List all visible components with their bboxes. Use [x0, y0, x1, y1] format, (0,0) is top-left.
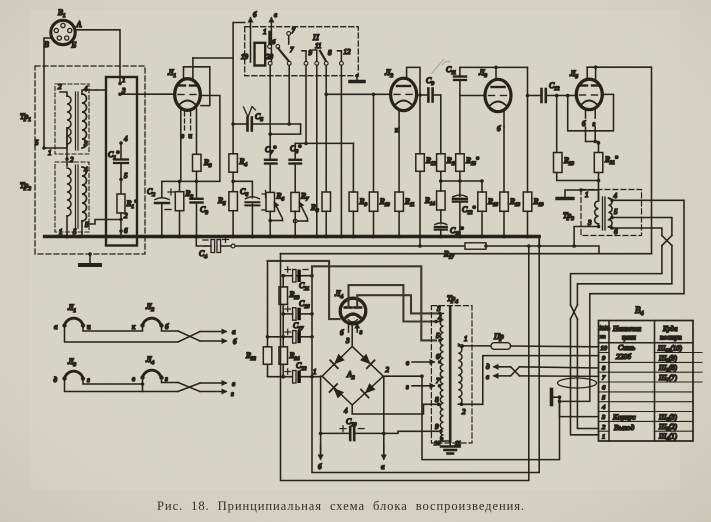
R24 bottom lead — [282, 364, 284, 376]
node line2 wC — [527, 244, 531, 248]
bridge diode BL — [330, 384, 345, 399]
C7 leads — [269, 156, 271, 160]
node C17 ll — [266, 335, 270, 339]
L4 anode bars — [345, 306, 361, 309]
wire junction to C6 — [233, 181, 252, 197]
C4 wires / line2 — [205, 245, 211, 247]
R7 bottom circle — [293, 219, 297, 223]
R4 leads — [232, 124, 234, 154]
node line2 Tr3pin3 — [572, 244, 576, 248]
svg-text:3: 3 — [83, 140, 88, 148]
wire from pin V down the left side — [44, 38, 51, 148]
tap9 — [439, 430, 443, 434]
anode junction vertical to switch area — [233, 23, 245, 125]
open circle node on line2 — [231, 244, 235, 248]
left rail top corner — [267, 261, 269, 337]
bridge corner2 wire right — [383, 375, 422, 377]
arrow up v — [250, 18, 252, 62]
plus C20 — [340, 426, 346, 432]
resistor R10 — [369, 192, 378, 211]
tap6 wire to X1 — [612, 228, 662, 236]
svg-text:1: 1 — [263, 28, 267, 36]
resistor R3 — [193, 154, 202, 171]
node 5 (shield) — [119, 178, 123, 182]
svg-text:цепи: цепи — [622, 334, 636, 342]
svg-text:2: 2 — [70, 156, 74, 164]
capacitor C4 electrolytic horizontal — [211, 240, 221, 253]
node 2 junction mid — [65, 157, 69, 161]
crossover X4 — [178, 331, 200, 341]
svg-text:б: б — [318, 463, 322, 471]
resistor R1 — [117, 194, 125, 213]
plus C22 — [285, 369, 291, 374]
C11 top lead — [459, 67, 461, 76]
svg-text:19: 19 — [241, 53, 249, 61]
wire contact12 down to bus — [340, 65, 342, 236]
svg-text:1: 1 — [602, 434, 605, 441]
cathode joining line — [586, 127, 599, 153]
arrow a down — [383, 445, 385, 459]
node C16 l — [281, 312, 285, 316]
minus sign C6 — [262, 209, 269, 211]
wire Tr1 sec top to shield pin3 — [82, 90, 96, 94]
svg-text:и: и — [87, 323, 91, 331]
svg-text:г: г — [406, 383, 409, 391]
node 2 (shield) — [119, 218, 123, 222]
L5 anode leads — [586, 67, 588, 79]
Tr3 dashed box — [581, 190, 642, 236]
resistor R7 — [291, 192, 300, 211]
node 6 (shield) — [119, 229, 123, 233]
node C21 right — [310, 274, 314, 278]
SECTION: buses — [45, 235, 652, 261]
resistor R21 — [594, 153, 603, 173]
thick wire t1 heater — [268, 261, 340, 319]
head L3 arc — [65, 371, 84, 378]
tube L2 envelope — [391, 78, 417, 110]
L2 grid dashes — [394, 93, 412, 95]
L1 cathode arc — [180, 101, 195, 105]
C13 bottom lead — [440, 230, 442, 237]
L3 grid dashes — [489, 95, 507, 97]
R18 leads — [503, 127, 505, 192]
svg-text:г: г — [231, 390, 234, 398]
cable loop oval — [558, 378, 597, 388]
Tr2 core — [75, 165, 77, 228]
resistor R23 — [279, 287, 288, 305]
crossover X5 — [178, 383, 200, 392]
svg-text:2: 2 — [462, 408, 466, 416]
node C20 left — [319, 432, 323, 436]
outputs v g — [200, 382, 226, 384]
R3 bottom lead — [196, 171, 198, 181]
chassis stub right of box — [355, 74, 359, 78]
head L1 terminal dots — [62, 323, 66, 327]
tube L4 envelope — [340, 298, 366, 324]
X1 out b — [577, 246, 672, 306]
node contact8 grid tee — [324, 93, 328, 97]
SECTION: tube L5 output — [528, 65, 652, 253]
tube L1 envelope — [175, 79, 201, 111]
R6 bottom lead — [269, 211, 271, 236]
svg-text:7: 7 — [436, 377, 440, 385]
Tr3 primary winding — [595, 201, 599, 224]
L2 cathode arc — [396, 101, 411, 105]
head L2 arc — [143, 318, 162, 325]
capacitor C3 — [191, 199, 203, 203]
tap5 — [438, 339, 442, 343]
capacitor C16 — [293, 308, 296, 321]
node R6 bottom — [268, 219, 272, 223]
svg-text:1: 1 — [313, 368, 317, 376]
wire head L2 right to crossover — [162, 326, 179, 332]
table column line 1 — [608, 321, 610, 442]
svg-text:12: 12 — [344, 48, 352, 56]
R11 leads — [398, 127, 400, 192]
wire to row7 — [520, 375, 599, 378]
node R2 junction — [178, 180, 182, 184]
svg-text:3: 3 — [436, 305, 441, 313]
svg-text:Выход: Выход — [614, 423, 634, 432]
thick wire t4 anode2 — [357, 295, 438, 313]
Tr1 secondary winding — [82, 94, 87, 148]
SECTION: power supply — [245, 246, 560, 481]
outputs a b — [200, 331, 226, 333]
head L1 arc — [65, 318, 84, 325]
h-link 143 — [295, 142, 353, 144]
table V4 outer frame — [599, 321, 694, 442]
svg-text:Б: Б — [71, 41, 77, 50]
minus C20 — [359, 428, 365, 430]
tap4 lead — [609, 198, 613, 200]
resistor R24 — [279, 347, 288, 365]
X3 out to row1 — [571, 319, 599, 435]
node C17 l — [281, 335, 285, 339]
L5 top rail to right corner — [587, 67, 651, 254]
R2 leads — [179, 181, 181, 191]
node link 181 a — [439, 179, 443, 183]
svg-text:и: и — [189, 132, 193, 140]
L5 cathode arc — [582, 101, 597, 105]
Tr1 primary winding — [67, 96, 71, 144]
capacitor C8 — [290, 160, 302, 164]
wire head L1 right to L2 left — [83, 326, 143, 332]
resistor R9 — [349, 192, 358, 211]
L2 anode lead — [407, 67, 420, 95]
resistor R2 — [175, 192, 184, 211]
node link 181 b — [458, 179, 462, 183]
bridge corner4 to tap8 — [352, 404, 436, 414]
R5 bottom lead — [232, 211, 234, 237]
wire C5 line left — [233, 123, 246, 125]
L4 cathode to bridge top — [351, 325, 353, 346]
capacitor C5 — [248, 118, 252, 131]
svg-text:е: е — [274, 11, 277, 19]
bus end drop to line2 — [538, 237, 540, 246]
screen loop — [568, 94, 614, 130]
tap4 node — [610, 199, 614, 203]
plus sign C2 — [168, 189, 174, 195]
plus C16 — [285, 306, 291, 311]
C2 leads — [161, 181, 163, 197]
earth ground Tr4 — [441, 447, 460, 454]
arrow up e — [270, 18, 272, 62]
svg-text:г: г — [360, 328, 363, 336]
resistor R18 — [500, 192, 509, 211]
wire head L3 right to L4 left — [83, 378, 143, 385]
tap6 — [438, 360, 442, 364]
node pole1 join — [268, 132, 272, 136]
Tr4 dashed box — [431, 306, 472, 443]
chassis wire — [565, 190, 581, 197]
C21 line — [283, 275, 312, 277]
L1 grid dashes — [178, 94, 196, 96]
C3 leads — [196, 181, 198, 198]
R21 bottom lead — [598, 173, 600, 201]
wire C12 to grid L5 — [546, 95, 577, 97]
node 5 bottom — [78, 235, 82, 239]
resistor R19 — [523, 192, 532, 211]
resistor R4 — [229, 154, 238, 172]
center rail R23 — [282, 276, 284, 287]
thick wire t2 — [312, 266, 436, 340]
resistor R5 — [229, 192, 238, 211]
svg-text:1: 1 — [464, 335, 468, 343]
C20 line — [321, 432, 349, 434]
wire contact8 down to R8 — [325, 65, 327, 192]
link line 181 — [441, 180, 482, 182]
node 1 (shield) — [118, 82, 122, 86]
minus sign C2 — [165, 209, 171, 211]
svg-text:6: 6 — [124, 227, 128, 235]
svg-text:пп: пп — [600, 334, 606, 340]
contact 1 circle — [268, 45, 272, 49]
wire head L3 left bottom run — [65, 379, 179, 392]
svg-text:9: 9 — [309, 49, 313, 57]
tap10 lead to core/ground — [442, 439, 450, 442]
row lines — [599, 353, 694, 432]
L3 anode lead — [495, 67, 497, 79]
svg-text:4: 4 — [84, 85, 88, 93]
L2 anode bar — [397, 85, 410, 87]
node wA end — [558, 395, 562, 399]
svg-text:4: 4 — [344, 407, 348, 415]
svg-text:8: 8 — [328, 49, 332, 57]
pole1 bottom contacts — [268, 62, 272, 66]
SECTION: RC ladder — [265, 80, 544, 248]
wire link h134 — [270, 124, 300, 134]
resistor R12 — [416, 154, 425, 172]
capacitor C2 electrolytic — [155, 198, 169, 200]
node R12 top — [418, 93, 422, 97]
node 3 (shield) — [118, 92, 122, 96]
chassis ground bar — [350, 80, 364, 84]
sec tap1 — [460, 344, 464, 348]
anode loop wire — [184, 67, 210, 106]
svg-text:1: 1 — [122, 76, 126, 84]
cathode lead down to R3 — [196, 109, 198, 154]
L3 anode bar — [492, 86, 505, 88]
contact 12 — [338, 51, 342, 62]
R12 leads — [419, 95, 421, 154]
svg-text:б: б — [253, 11, 257, 19]
R15 leads — [459, 80, 461, 154]
R10 leads — [373, 94, 375, 192]
SECTION: input connector — [44, 8, 120, 148]
adjust arrow V над C5 — [244, 107, 256, 118]
crossover X2 — [511, 367, 520, 376]
grid2 lead down to R2 — [180, 110, 182, 181]
tap6 node — [610, 226, 614, 230]
C22 to bridge corner1 — [301, 376, 320, 378]
svg-text:Куда: Куда — [662, 325, 678, 333]
Tr2 primary winding — [67, 168, 71, 216]
head L4 arc — [143, 370, 162, 377]
resistor R17 horizontal — [465, 243, 486, 249]
heater dashed leads — [185, 112, 191, 131]
node C22 a — [281, 375, 285, 379]
connector V1 pins — [54, 23, 72, 40]
node C17 r — [310, 335, 314, 339]
tap3 — [438, 312, 442, 316]
capacitor C13 electrolytic small — [435, 223, 447, 225]
wire wA plus out — [422, 376, 560, 459]
tap5 lead — [609, 218, 613, 220]
right stubs rows 10-7 — [693, 353, 702, 383]
svg-text:6: 6 — [436, 353, 440, 361]
Tr1 core — [75, 92, 77, 150]
contact 1 bar — [268, 32, 271, 44]
tap5 wire to X1 — [612, 218, 672, 236]
contact 11 — [313, 50, 317, 61]
L3 cathode lead — [503, 112, 505, 128]
anode link to C5 junction — [193, 57, 233, 59]
capacitor C12 electrolytic — [453, 195, 467, 197]
wire e in — [494, 375, 511, 377]
L4 smile arc — [348, 320, 357, 322]
svg-text:5: 5 — [124, 172, 128, 180]
crossover X3 — [571, 305, 578, 319]
inner dashed screen box upper — [55, 84, 89, 154]
L3 cathode arc — [491, 102, 506, 106]
wire Tr2 sec bottom lead — [81, 221, 83, 237]
wire Tr1 top pin2 — [60, 92, 67, 96]
resistor R6 — [266, 192, 275, 211]
L4 bottom leads — [348, 323, 350, 332]
svg-text:а: а — [381, 463, 385, 471]
node C5 line switch tee — [287, 122, 291, 126]
fuse Pr — [491, 343, 511, 350]
plus C17 — [285, 329, 291, 334]
node R12 bottom on line2 — [418, 244, 422, 248]
node 4 (shield) — [119, 141, 123, 145]
svg-text:А: А — [76, 20, 82, 29]
wire from pin A to shield box pin 1 — [75, 30, 121, 84]
R7 wiper hook — [300, 203, 308, 222]
pole1 moving circle — [276, 45, 280, 49]
R13 leads — [440, 95, 442, 154]
wire contact11 down to bus — [316, 65, 318, 236]
node line2 d — [484, 244, 488, 248]
minus C4 — [203, 239, 208, 241]
resistor R16 — [478, 192, 487, 211]
svg-text:д: д — [54, 376, 58, 384]
resistor R11 — [395, 192, 404, 211]
resistor R8 — [322, 192, 331, 211]
crossover X1 — [662, 236, 672, 246]
node screen loop top — [566, 94, 570, 98]
capacitor C6 electrolytic — [245, 197, 259, 199]
bridge diode TL — [330, 353, 345, 368]
R9 leads — [352, 143, 354, 192]
contact 8 circle — [324, 62, 328, 66]
svg-text:б: б — [340, 329, 344, 337]
capacitor C12coupling — [542, 89, 546, 102]
tap4 — [434, 320, 438, 324]
wire Tr2 primary bottom to bus — [66, 216, 68, 237]
svg-text:8: 8 — [435, 396, 439, 404]
node R20 top — [555, 94, 559, 98]
R16 leads — [481, 181, 483, 192]
stub mid link down — [142, 384, 144, 392]
svg-text:4: 4 — [124, 135, 128, 143]
svg-text:2: 2 — [58, 83, 62, 91]
SECTION: switch box — [241, 11, 391, 237]
svg-text:2: 2 — [386, 366, 390, 374]
wire d in — [494, 366, 511, 368]
col3 entries — [657, 345, 683, 443]
line3 B+ — [281, 253, 652, 255]
shield dashed box Tr1/Tr2 — [35, 66, 145, 254]
node mid link — [141, 382, 145, 386]
wire pole1 right down to C5 line — [288, 65, 290, 124]
svg-text:11: 11 — [315, 42, 321, 50]
C9 wires — [420, 94, 427, 96]
table column line 2 — [654, 321, 656, 442]
C17 line — [268, 336, 293, 338]
node row3 wire — [558, 400, 562, 404]
node R3 junction — [195, 180, 199, 184]
node line2 wB — [537, 244, 541, 248]
table header bottom — [599, 342, 694, 344]
svg-text:9: 9 — [435, 423, 439, 431]
L5 grid dashes — [580, 94, 598, 96]
head L3 terminal dots — [62, 376, 66, 380]
Tr4 primary winding — [440, 313, 443, 441]
fuse line row10 — [462, 345, 491, 347]
svg-text:Корпус: Корпус — [612, 413, 636, 422]
tap2 wire to row9 — [462, 356, 599, 405]
tap6 lead — [609, 227, 613, 228]
wire wB down-around — [312, 246, 539, 473]
SECTION: right routing — [486, 200, 684, 434]
wire bar to row3 — [553, 396, 559, 398]
node L3 anode on rail — [494, 66, 498, 70]
bus junction dots — [65, 235, 530, 239]
pin3 wire to line2 — [574, 224, 598, 246]
capacitor C20 — [350, 427, 354, 440]
node R20R21 join — [597, 179, 601, 183]
node wA top — [420, 374, 424, 378]
svg-text:в: в — [406, 359, 409, 367]
wire head L4 right to crossover — [162, 378, 179, 383]
grid right lead to grid leak junction — [162, 96, 220, 182]
capacitor C9 — [428, 89, 432, 102]
top rail — [460, 66, 528, 68]
svg-text:220б: 220б — [616, 352, 631, 361]
bus drop to line2 — [196, 237, 205, 247]
head L4 terminal dots — [140, 375, 144, 379]
